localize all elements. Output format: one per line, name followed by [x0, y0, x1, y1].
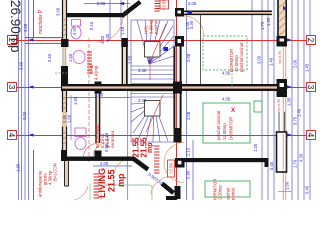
arrowheads left grid ends — [29, 38, 34, 136]
toilet bowl — [71, 26, 81, 39]
svg-text:3.00: 3.00 — [257, 55, 262, 64]
sink lower-left bowl — [75, 138, 86, 150]
svg-text:2.00: 2.00 — [293, 59, 298, 68]
svg-text:1.50: 1.50 — [73, 96, 78, 105]
column left at grid3 — [61, 66, 68, 91]
column bath east grid2 — [121, 38, 128, 47]
svg-text:4.05: 4.05 — [222, 97, 231, 102]
arrow blob right wall top — [283, 6, 287, 10]
door arc top hall — [184, 16, 204, 36]
svg-text:laminat: laminat — [231, 187, 236, 200]
wall balcony vertical lower — [64, 161, 69, 186]
door arc kitchen — [84, 144, 98, 158]
stair direction line upper (red) — [150, 24, 166, 80]
svg-text:1.25: 1.25 — [266, 17, 271, 26]
stair lower boundary — [131, 91, 174, 142]
terrace edge top-left vertical — [33, 0, 35, 38]
svg-text:hp=0.90: hp=0.90 — [277, 99, 281, 112]
wall left door gap — [61, 112, 68, 127]
red level box top — [160, 0, 169, 9]
wall right hatch — [279, 2, 286, 36]
svg-text:hp=0.90: hp=0.90 — [278, 51, 282, 64]
svg-text:2.55: 2.55 — [128, 55, 133, 64]
svg-text:BALCON: BALCON — [53, 163, 58, 181]
svg-text:mp: mp — [116, 173, 126, 187]
marker box 2 right — [307, 36, 316, 45]
LAYER: blue dimension texts — [16, 1, 310, 194]
door arc living west — [93, 143, 107, 157]
svg-text:2.08: 2.08 — [186, 111, 191, 120]
column right at grid3 — [277, 79, 288, 97]
svg-text:0.30: 0.30 — [189, 20, 194, 29]
column door bottom center — [175, 158, 185, 168]
dim line kitchen door — [70, 95, 72, 140]
LAYER: grid marker boxes — [7, 36, 315, 140]
svg-text:1.50: 1.50 — [285, 181, 290, 190]
door leaf left wall — [63, 113, 67, 127]
axis vertical red B2 — [127, 0, 129, 200]
svg-text:DORMITOR: DORMITOR — [229, 117, 234, 140]
svg-text:0.10: 0.10 — [89, 21, 94, 30]
wall left hatch — [63, 18, 67, 145]
LAYER: big red labels — [97, 137, 154, 198]
wall bottom-left horizontal — [62, 157, 134, 161]
svg-text:3.00: 3.00 — [19, 61, 24, 70]
stair wall grid3 junction — [173, 82, 182, 94]
wall bottom-right horizontal — [185, 158, 269, 162]
svg-text:3.40: 3.40 — [138, 98, 147, 103]
svg-text:parchet laminat: parchet laminat — [239, 42, 244, 72]
grid line 2 — [17, 40, 306, 42]
green bed middle-right — [203, 103, 250, 143]
axis vertical red B — [88, 38, 90, 162]
svg-text:X: X — [231, 108, 235, 114]
wire dim center verticals — [110, 0, 252, 200]
svg-text:ceramica: ceramica — [110, 130, 115, 148]
svg-text:1.75: 1.75 — [260, 21, 265, 30]
svg-text:1.30: 1.30 — [287, 97, 292, 106]
svg-text:1.40: 1.40 — [269, 57, 274, 66]
LAYER: walls — [25, 0, 287, 200]
window jamb right mid — [277, 132, 287, 172]
column right at grid2 — [277, 36, 288, 47]
svg-text:1.90: 1.90 — [95, 93, 104, 98]
svg-text:4: 4 — [7, 133, 16, 138]
svg-text:1.45: 1.45 — [305, 63, 310, 72]
svg-text:3.08: 3.08 — [23, 23, 28, 32]
window left wall — [61, 47, 68, 66]
pale green carpet bottom-center — [101, 185, 152, 202]
radiator top hall — [155, 1, 160, 11]
stair wall columns top — [175, 8, 184, 17]
svg-text:4: 4 — [306, 133, 315, 138]
svg-text:1.95: 1.95 — [16, 163, 21, 172]
svg-text:12.20mp: 12.20mp — [218, 185, 223, 200]
wall diagonal D1 — [133, 158, 149, 170]
svg-text:0.60: 0.60 — [72, 26, 77, 35]
door arc bottom center double lower — [164, 163, 184, 183]
wall bottom-right end leg — [265, 162, 269, 167]
LAYER: red hatched radiators — [87, 0, 282, 198]
green nightstand right — [254, 101, 262, 112]
magenta dashes mid-left — [55, 72, 67, 74]
tan tick right low 2 — [278, 191, 291, 193]
svg-text:2.00: 2.00 — [100, 161, 109, 166]
sink lower-left rect — [75, 128, 86, 137]
wall right exterior top edges — [278, 0, 286, 46]
svg-text:3.00: 3.00 — [56, 7, 61, 16]
svg-text:parchet: parchet — [154, 19, 159, 34]
grid line 4 — [17, 135, 306, 137]
door arc D1 — [113, 158, 133, 178]
svg-text:4.41mp: 4.41mp — [94, 65, 99, 80]
terrace band lines top-left — [25, 38, 62, 44]
green bed bottom-right — [205, 181, 250, 197]
LAYER: fixtures and furniture — [55, 20, 262, 203]
marker box 4 left — [8, 131, 17, 140]
door arc diagonal lower — [151, 174, 175, 198]
column kitchen wall grid3 — [95, 82, 102, 94]
svg-text:21.55: 21.55 — [107, 169, 117, 192]
stair eye upper — [145, 42, 161, 58]
wall top-left horizontal — [66, 13, 124, 17]
terrace edge bottom-left vertical — [33, 150, 35, 200]
stair wall lower cap — [174, 128, 182, 143]
svg-text:2.05: 2.05 — [188, 1, 197, 6]
svg-text:0.60: 0.60 — [47, 53, 52, 62]
svg-text:1.70: 1.70 — [293, 159, 298, 168]
partition thin closet — [200, 14, 202, 84]
svg-text:2.00: 2.00 — [97, 1, 106, 6]
pale green line bottom-left — [89, 183, 91, 200]
LAYER: red grid axes — [17, 0, 306, 200]
LAYER: door swing arcs (tan) — [71, 16, 204, 201]
svg-text:3.40: 3.40 — [138, 68, 147, 73]
wall D2 foot — [166, 196, 177, 200]
radiator living — [154, 146, 160, 173]
red level box bottom — [168, 160, 175, 177]
stair upper flight treads — [131, 20, 174, 79]
svg-text:0.90: 0.90 — [104, 143, 109, 152]
svg-text:parchet laminat: parchet laminat — [216, 110, 221, 140]
svg-text:2: 2 — [306, 38, 315, 43]
svg-text:+2.95: +2.95 — [162, 0, 167, 10]
wall top-right core line — [185, 12, 271, 14]
wall grid3 horizontal band — [62, 84, 277, 91]
wire dim left cluster — [19, 0, 29, 200]
svg-text:+2.56: +2.56 — [169, 163, 174, 174]
svg-text:mp: mp — [147, 143, 154, 154]
svg-text:0.30: 0.30 — [105, 33, 110, 42]
green dashed bed top-right — [203, 36, 247, 70]
grid line 3 — [17, 87, 306, 89]
LAYER: room labels red rotated — [38, 9, 245, 202]
wall left exterior core — [62, 0, 67, 160]
LAYER: blue dimension lines — [19, 0, 311, 200]
svg-text:0.45: 0.45 — [305, 185, 310, 194]
wall right exterior top core — [277, 0, 287, 46]
LAYER: stairs — [131, 20, 174, 142]
svg-text:1.18: 1.18 — [120, 26, 125, 35]
wall bath east vertical — [122, 47, 127, 84]
stair direction line lower (red) — [146, 95, 163, 132]
stair wall vertical double — [174, 47, 180, 129]
green dashed stub — [231, 70, 233, 86]
svg-text:26.90mp: 26.90mp — [8, 0, 23, 53]
wall left exterior edges — [63, 0, 67, 160]
marker box 3 right — [307, 83, 316, 92]
radiator bath — [87, 52, 92, 73]
svg-text:2.10: 2.10 — [104, 132, 109, 141]
door arc top-left room — [97, 16, 123, 42]
svg-text:1.00: 1.00 — [67, 114, 72, 123]
svg-text:0.90: 0.90 — [186, 170, 191, 179]
LAYER: blue dim arrows — [29, 2, 293, 137]
marker box 2 left — [8, 36, 17, 45]
svg-text:1.40: 1.40 — [297, 108, 302, 117]
wall top-left diagonal — [122, 2, 141, 16]
svg-text:1.20: 1.20 — [253, 143, 258, 152]
arrow blob top dim — [119, 2, 124, 5]
door arc bottom center double upper — [164, 143, 184, 163]
marker box 3 left — [8, 83, 17, 92]
window right upper thin — [279, 112, 285, 132]
svg-text:1.50: 1.50 — [68, 53, 73, 62]
column left at grid2 — [61, 39, 69, 47]
wall kitchen vertical — [96, 91, 101, 143]
stair lower flight treads — [131, 94, 174, 142]
arrow blob top wall — [186, 11, 192, 15]
svg-text:2.08: 2.08 — [186, 53, 191, 62]
axis vertical orange pair right — [282, 0, 284, 200]
LAYER: black area text — [8, 0, 23, 53]
radiator dining — [94, 174, 100, 198]
wall top-right horizontal — [184, 11, 272, 16]
column left at bottom wall — [61, 150, 67, 161]
stair upper boundary — [131, 20, 174, 84]
stair wall column grid2 — [175, 36, 184, 47]
svg-text:4.30: 4.30 — [299, 153, 304, 162]
toilet tank — [72, 20, 81, 27]
axis vertical red C — [176, 0, 178, 200]
svg-text:0.40: 0.40 — [269, 161, 274, 170]
wire dim right cluster — [262, 0, 310, 200]
bath sink ellipse — [73, 51, 85, 64]
svg-text:3: 3 — [7, 85, 16, 90]
svg-text:12.00mp: 12.00mp — [222, 123, 227, 140]
column D2 jamb — [175, 186, 181, 199]
svg-text:3: 3 — [306, 85, 315, 90]
stair eye lower — [145, 101, 161, 117]
svg-text:mocheta: mocheta — [38, 15, 44, 34]
svg-text:LIVING: LIVING — [97, 168, 107, 198]
wall diagonal D2 — [162, 184, 174, 194]
svg-text:2.10: 2.10 — [186, 147, 191, 156]
svg-text:3.00: 3.00 — [22, 111, 27, 120]
arrowheads right grid ends — [287, 38, 292, 136]
column kitchen wall bottom — [95, 151, 102, 161]
arrow blob stair — [164, 47, 169, 51]
svg-text:4.05: 4.05 — [222, 71, 231, 76]
marker box 4 right — [307, 131, 316, 140]
door arc bottom-left bath — [73, 186, 89, 201]
wire dim horizontals — [67, 4, 132, 167]
